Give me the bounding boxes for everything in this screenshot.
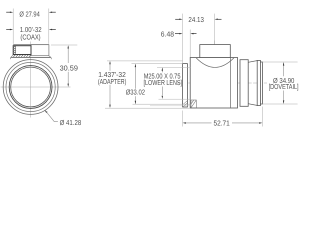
dim 6.48 right extension line [189,30,191,58]
second circle [6,62,55,111]
extra faint line below [150,105,191,107]
main body [190,58,237,109]
svg-text:Ø 41.28: Ø 41.28 [60,118,82,127]
port/body intersection arc [196,58,234,68]
dovetail flange [260,62,262,104]
dim ⌀33.02 bottom extension line [133,103,192,105]
dim ⌀27.94 right arrow [49,11,56,13]
cone section bottom edge [248,104,257,106]
port base wide line [11,56,51,58]
dim ⌀27.94 left arrow [6,11,13,13]
coax port front: threaded left block (thick border) [13,46,31,55]
thread callout 1.00-32 left arrow [6,29,13,31]
svg-text:Ø33.02: Ø33.02 [126,87,145,96]
dim 30.59 top extension line [51,44,77,46]
dim 24.13 left arrow [175,19,182,21]
thread relief hatch wedge lower-left [191,100,196,108]
dim 1.437-32 top extension line [107,60,183,62]
dim 52.71 right extension line [261,107,263,127]
port base right flare [49,56,52,60]
centerline horizontal side view [178,82,268,84]
ring A (lens tube section) [240,60,248,107]
svg-text:[DOVETAIL]: [DOVETAIL] [269,82,299,91]
dim 24.13 right arrow [215,19,222,21]
dim ⌀33.02 top extension line [132,63,183,65]
dim ⌀27.94 extension line right [48,9,50,44]
ring B [257,60,260,105]
M25 dim vertical line with arrows [162,68,163,99]
dim 1.437-32 vertical line with arrows [109,61,110,108]
svg-text:(ADAPTER): (ADAPTER) [98,77,127,86]
svg-text:6.48: 6.48 [161,30,174,39]
third circle (thread ring) [9,66,52,109]
centerline vertical front view [30,42,32,118]
outer circle (⌀41.28 flange) [3,60,58,115]
thread hatch strip left [13,46,15,55]
adapter ring hatch [183,101,187,107]
cone section top edge [248,61,257,63]
thread callout 1.00-32 right arrow [49,29,56,31]
svg-text:[LOWER LENS]: [LOWER LENS] [144,78,183,87]
svg-text:(COAX): (COAX) [20,33,40,42]
svg-text:Ø 27.94: Ø 27.94 [19,9,39,18]
svg-text:52.71: 52.71 [214,118,230,127]
dim 52.71 left extension line [182,111,184,127]
centerline vertical through port [214,41,216,97]
dim 6.48 right arrow [190,33,196,35]
dim 52.71 line with arrows [183,122,263,124]
centerline horizontal front view [1,86,71,88]
port base left flare [10,55,13,59]
dim ⌀34.90 vertical line with arrows [283,62,284,103]
dim 30.59 line with arrows [68,45,69,87]
leader ⌀41.28 [44,110,58,122]
coax port block side view [200,45,231,58]
coax port front: top edge thin line [13,44,49,46]
dim 1.437-32 bottom extension line [105,107,190,109]
dim ⌀34.90 bottom extension line [262,103,298,105]
dim ⌀27.94 extension line left [12,9,14,44]
thread hatch strip bottom [13,55,31,57]
adapter thread ring [183,64,188,107]
svg-text:30.59: 30.59 [60,63,78,72]
dim ⌀34.90 top extension line [262,61,298,63]
dim 24.13 extension line left (adapter face) [182,14,184,64]
dim ⌀33.02 vertical line with arrows [135,64,136,104]
body seam line [230,58,232,109]
dim 6.48 left arrow with leader [175,33,183,35]
dim 24.13 extension line right (port centerline) [214,14,216,45]
M25 dim bottom extension line [159,98,191,100]
svg-text:24.13: 24.13 [188,15,204,24]
coax port front: right collar rectangle [31,45,49,56]
inner bore circle [11,67,51,107]
M25 dim top extension line [157,66,190,68]
